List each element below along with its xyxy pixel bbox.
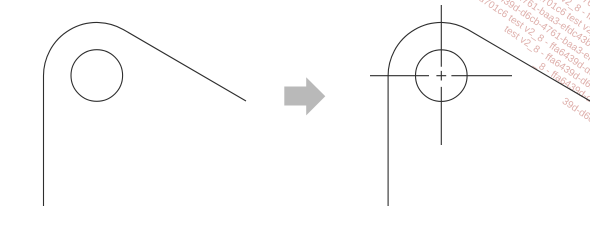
vertical centerline [440, 5, 442, 145]
gray arrow [284, 77, 325, 115]
watermark text block [322, 0, 590, 13]
left shape outline [44, 22, 247, 206]
horizontal centerline [370, 75, 512, 77]
left hole circle [71, 50, 123, 102]
right shape outline [388, 22, 590, 206]
right hole circle [416, 50, 468, 102]
